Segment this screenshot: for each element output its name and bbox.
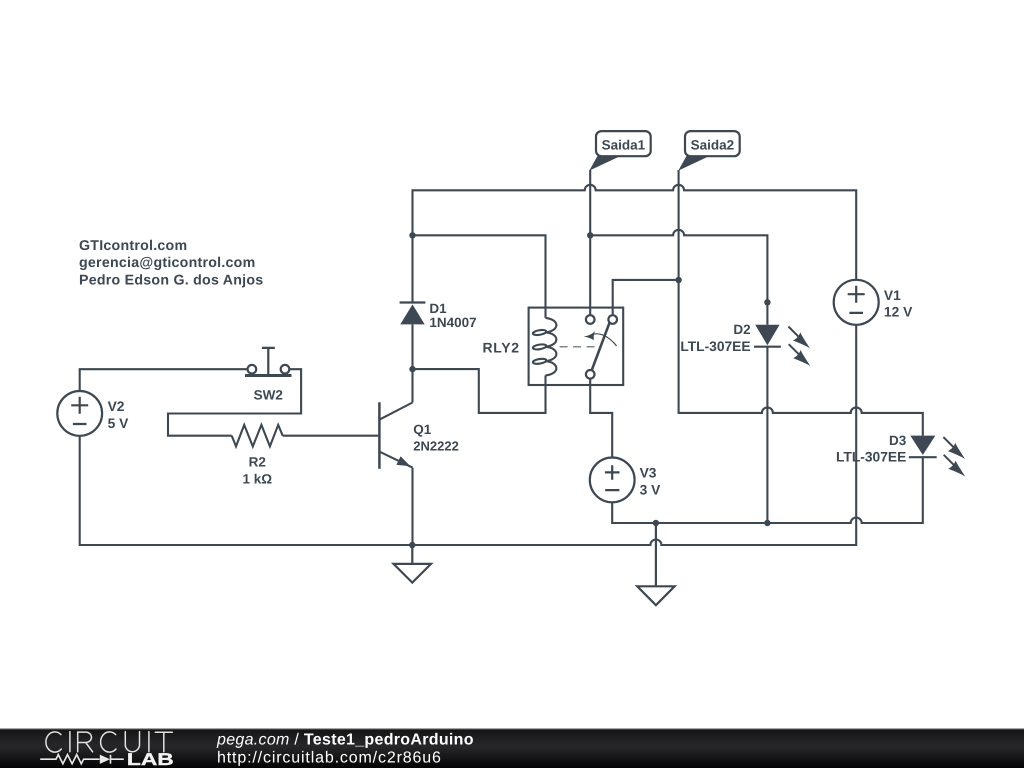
relay dashed actuation line	[560, 346, 595, 348]
footer bar	[0, 729, 1024, 768]
svg-text:Saida2: Saida2	[691, 137, 735, 152]
junction D1 cathode / top rails	[409, 232, 415, 238]
voltage source V2	[57, 391, 102, 436]
resistor R2	[232, 425, 283, 447]
svg-text:1 kΩ: 1 kΩ	[243, 472, 273, 487]
svg-text:SW2: SW2	[254, 388, 283, 403]
svg-text:1N4007: 1N4007	[429, 315, 476, 330]
LED D2 emission arrows	[788, 327, 810, 349]
wire relay bottom contact to V3 plus	[590, 379, 612, 458]
wire D2 cathode down	[766, 347, 768, 523]
wire Saida1 to relay common contact	[589, 170, 591, 315]
svg-text:GTIcontrol.com: GTIcontrol.com	[79, 238, 187, 254]
junction D2 cathode bottom	[764, 520, 770, 526]
svg-text:D2: D2	[733, 322, 750, 337]
wire relay coil bottom to Q1 collector node	[413, 369, 546, 413]
wire node to relay coil top	[413, 235, 546, 318]
switch SW2	[245, 348, 292, 376]
svg-text:2N2222: 2N2222	[413, 438, 459, 453]
svg-text:R2: R2	[249, 454, 266, 469]
CircuitLab logo text CIRCUIT (thin strokes)	[46, 732, 172, 753]
relay RLY2 box	[529, 308, 624, 385]
svg-text:gerencia@gticontrol.com: gerencia@gticontrol.com	[79, 255, 255, 271]
wire relay NO contact to Saida2 net	[613, 280, 679, 315]
svg-text:Q1: Q1	[413, 422, 432, 437]
wire Q1 collector to D1 anode node	[411, 235, 413, 402]
wire Q1 emitter down	[411, 468, 413, 545]
LED D3 emission arrows	[943, 437, 965, 459]
svg-text:http://circuitlab.com/c2r86u6: http://circuitlab.com/c2r86u6	[217, 750, 442, 767]
svg-text:pega.com / Teste1_pedroArduino: pega.com / Teste1_pedroArduino	[216, 731, 474, 748]
svg-text:LTL-307EE: LTL-307EE	[836, 449, 906, 464]
wire SW2 right to R2	[168, 369, 301, 436]
LED D2	[755, 325, 779, 346]
wire V2 top to SW2 left	[80, 369, 248, 391]
CircuitLab logo icon: resistor and diode	[40, 755, 124, 764]
svg-text:LAB: LAB	[127, 750, 174, 768]
svg-text:12 V: 12 V	[884, 305, 913, 320]
voltage source V1	[834, 280, 879, 325]
svg-text:V1: V1	[884, 288, 901, 303]
LED D3	[910, 436, 935, 455]
svg-text:V3: V3	[640, 466, 657, 481]
junction D2 anode wire	[764, 299, 770, 305]
svg-text:V2: V2	[108, 399, 125, 414]
svg-text:D1: D1	[429, 301, 447, 316]
relay contacts	[586, 315, 617, 378]
flag Saida2	[678, 155, 710, 171]
flag Saida1	[589, 155, 621, 171]
ground 1	[394, 545, 432, 583]
svg-text:5 V: 5 V	[108, 416, 130, 431]
diode D1	[400, 304, 424, 324]
wire to D2 anode	[590, 230, 767, 325]
svg-text:Pedro Edson G. dos Anjos: Pedro Edson G. dos Anjos	[79, 272, 263, 288]
wire top rail to V1 plus	[413, 185, 857, 280]
transistor Q1	[379, 402, 412, 469]
junction Q1 collector / D1 / coil	[409, 366, 415, 372]
CircuitLab logo LAB	[127, 750, 174, 768]
svg-text:D3: D3	[889, 433, 907, 448]
wire R2 to Q1 base	[283, 435, 379, 437]
wire D3 cathode to V3 minus	[612, 457, 923, 523]
svg-text:RLY2: RLY2	[482, 340, 519, 356]
svg-text:Saida1: Saida1	[602, 137, 646, 152]
wire Saida2 down and right to D3 anode	[679, 170, 923, 436]
svg-text:LTL-307EE: LTL-307EE	[680, 339, 750, 354]
svg-text:3 V: 3 V	[640, 483, 662, 498]
relay lever	[592, 322, 610, 371]
voltage source V3	[590, 458, 635, 503]
junction emitter ground rail	[409, 542, 415, 548]
junction Saida1 net at relay common	[587, 232, 593, 238]
ground 2	[637, 523, 674, 605]
relay coil	[533, 318, 557, 376]
junction V3 minus / ground 2	[653, 520, 659, 526]
junction Saida2 net at relay NO branch	[675, 277, 681, 283]
relay motion arrow	[591, 334, 617, 346]
wire V1 minus bottom rail to V2 minus	[80, 325, 857, 545]
